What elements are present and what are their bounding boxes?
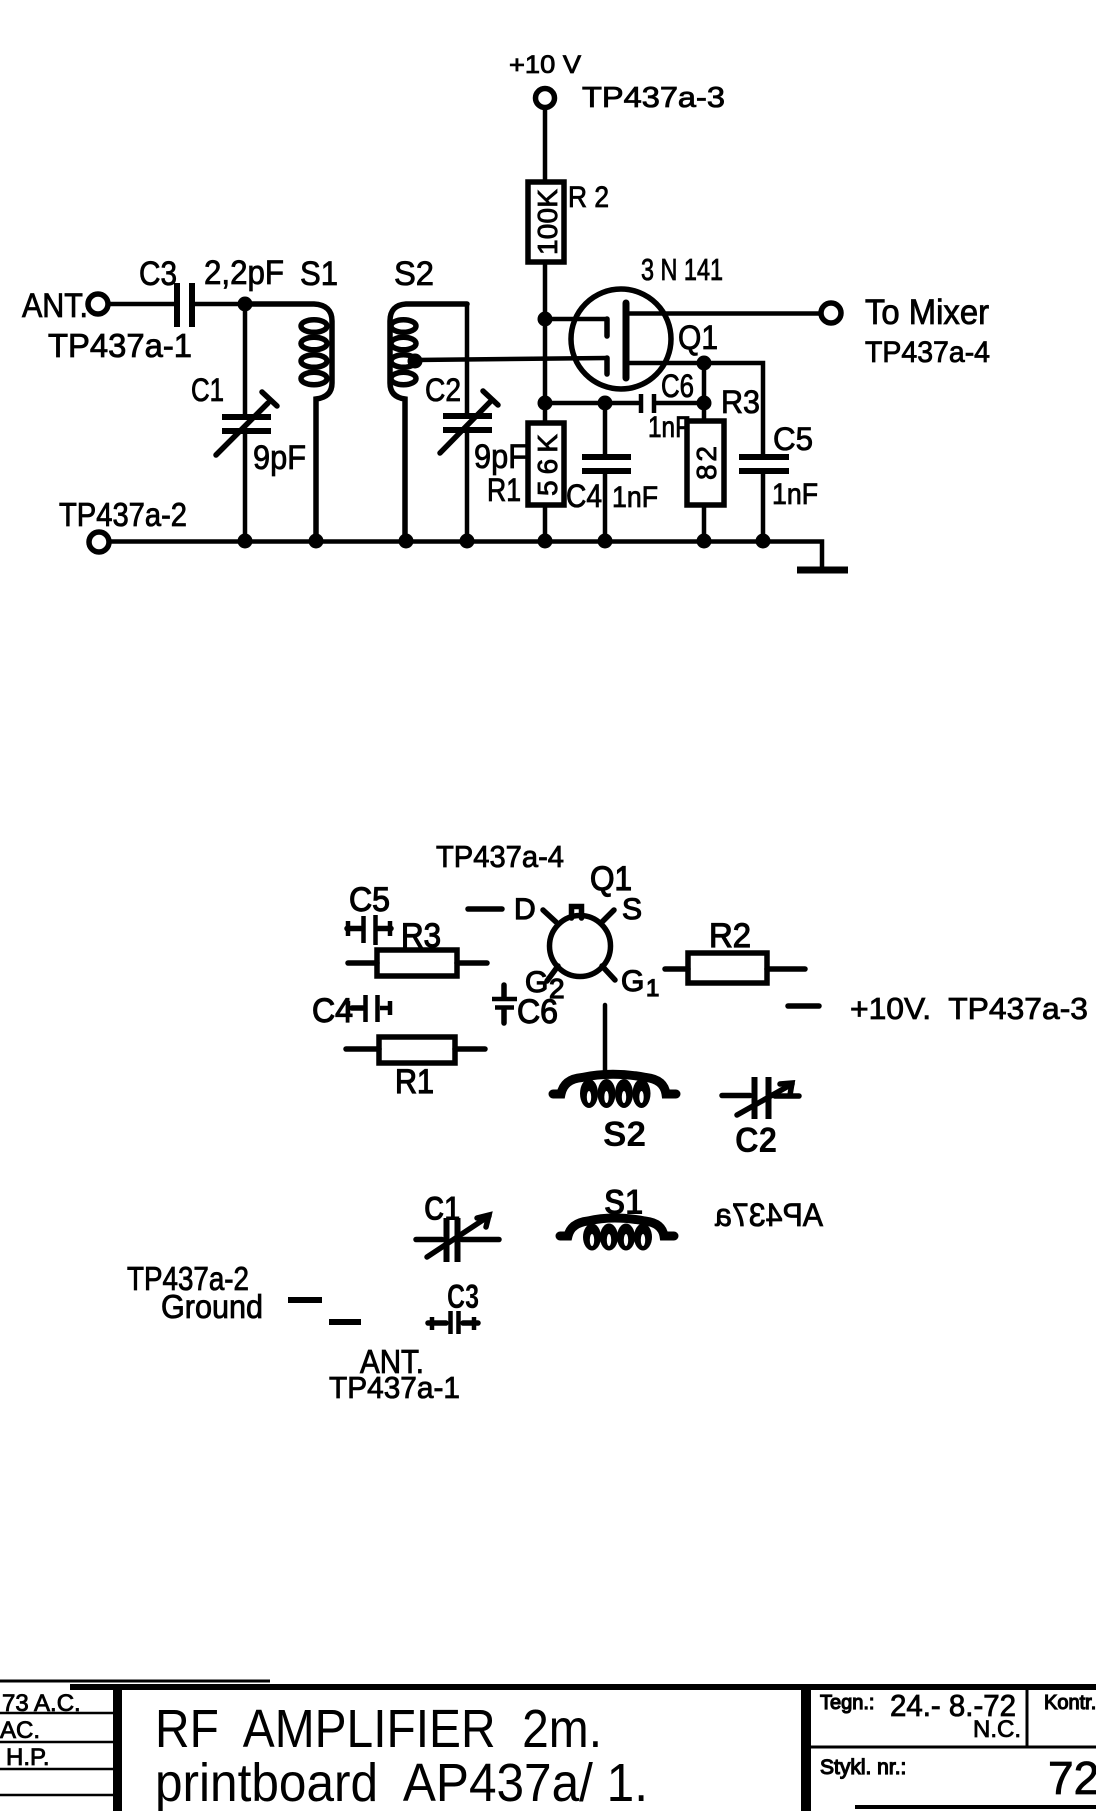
svg-text:AP437a: AP437a <box>715 1197 823 1233</box>
svg-text:73 A.C.: 73 A.C. <box>2 1690 81 1717</box>
svg-text:N.C.: N.C. <box>973 1716 1021 1743</box>
resistor R1 56K <box>487 403 564 541</box>
layout inductor S2 <box>553 1074 676 1154</box>
svg-text:3 N 141: 3 N 141 <box>641 252 723 287</box>
svg-text:56K: 56K <box>532 434 563 496</box>
svg-text:S: S <box>622 893 642 926</box>
title text printboard AP437a/1 <box>155 1753 648 1811</box>
svg-text:1nF: 1nF <box>772 478 818 511</box>
terminal ground TP437a-2 <box>59 496 187 552</box>
transistor Q1 3N141 <box>571 252 723 389</box>
svg-text:C6: C6 <box>661 368 694 404</box>
svg-text:ANT.: ANT. <box>22 287 88 325</box>
svg-text:Tegn.:: Tegn.: <box>820 1692 874 1714</box>
svg-text:C4: C4 <box>566 478 602 514</box>
svg-text:Stykl. nr.:: Stykl. nr.: <box>820 1756 906 1779</box>
svg-text:AC.: AC. <box>0 1717 40 1744</box>
wire +10V to R2 <box>543 108 548 182</box>
svg-text:Ground: Ground <box>161 1288 263 1325</box>
svg-text:printboard AP437a/ 1.: printboard AP437a/ 1. <box>155 1753 648 1811</box>
terminal To Mixer TP437a-4 <box>821 293 990 369</box>
node C4 junction <box>598 396 613 411</box>
capacitor C6 1nF <box>641 368 694 444</box>
node rail S1 <box>309 534 324 549</box>
svg-text:To Mixer: To Mixer <box>865 293 989 332</box>
svg-text:+10V. TP437a-3: +10V. TP437a-3 <box>850 991 1088 1026</box>
svg-text:1nF: 1nF <box>648 411 690 444</box>
svg-text:C5: C5 <box>349 881 390 919</box>
layout wire stub drain <box>468 906 502 912</box>
node rail C2 <box>460 534 475 549</box>
layout capacitor C6 <box>492 985 558 1031</box>
layout wire Q1 to S2 <box>603 1005 608 1070</box>
resistor R3 82 <box>687 384 760 541</box>
title block frame <box>0 1681 1096 1811</box>
node A junction <box>238 297 253 312</box>
variable capacitor C1 9pF <box>191 304 306 541</box>
svg-text:RF AMPLIFIER 2m.: RF AMPLIFIER 2m. <box>155 1699 602 1759</box>
svg-text:D: D <box>514 893 536 926</box>
node R3 junction <box>697 396 712 411</box>
wire gate2 node to R1 node <box>543 319 548 403</box>
node rail C1 <box>238 534 253 549</box>
layout trimmer C1 <box>416 1190 499 1262</box>
wire C6 row right <box>656 401 704 406</box>
capacitor C4 1nF <box>566 403 658 541</box>
wire R2 to gate2 node <box>543 262 548 319</box>
svg-text:TP437a-4: TP437a-4 <box>865 336 990 369</box>
svg-text:R2: R2 <box>709 917 751 955</box>
layout pin G1 <box>621 965 659 1002</box>
svg-text:R1: R1 <box>487 472 521 508</box>
layout wire stub +10V <box>788 1003 819 1009</box>
svg-text:R1: R1 <box>395 1063 434 1101</box>
svg-text:Q1: Q1 <box>678 319 718 357</box>
svg-text:S2: S2 <box>603 1115 646 1154</box>
layout wire stub antenna <box>329 1319 361 1325</box>
layout capacitor C4 <box>312 992 391 1030</box>
layout capacitor C3 <box>428 1278 479 1334</box>
svg-text:Kontr.: Kontr. <box>1044 1692 1096 1714</box>
layout resistor R1 <box>346 1037 485 1101</box>
wire C3 to node A <box>195 302 245 307</box>
node source junction <box>697 356 712 371</box>
capacitor C5 1nF <box>739 421 818 541</box>
svg-text:TP437a-3: TP437a-3 <box>582 82 725 114</box>
svg-text:R 2: R 2 <box>568 181 609 214</box>
title block approvals table <box>0 1690 114 1795</box>
title block Stykl nr <box>820 1752 1096 1804</box>
svg-text:9pF: 9pF <box>253 439 306 477</box>
svg-text:1nF: 1nF <box>612 481 658 514</box>
wire C6 row left <box>545 401 638 406</box>
layout transistor Q1 footprint <box>543 907 615 982</box>
wire source node down <box>702 363 707 403</box>
svg-text:1: 1 <box>646 975 659 1002</box>
svg-text:H.P.: H.P. <box>6 1744 50 1771</box>
inductor S2 <box>390 255 467 541</box>
layout resistor R3 <box>348 917 487 976</box>
node rail R3 <box>697 534 712 549</box>
svg-text:C3: C3 <box>447 1278 479 1316</box>
svg-text:S1: S1 <box>300 255 338 293</box>
wire gate2 node to G2 <box>545 317 605 322</box>
svg-text:9pF: 9pF <box>474 438 527 476</box>
title text RF AMPLIFIER 2m. <box>155 1699 602 1759</box>
svg-text:TP437a-4: TP437a-4 <box>436 839 564 874</box>
wire drain to mixer <box>626 311 821 316</box>
svg-text:TP437a-1: TP437a-1 <box>48 327 192 364</box>
svg-text:C2: C2 <box>735 1121 777 1160</box>
svg-text:C6: C6 <box>517 993 558 1031</box>
variable capacitor C2 9pF <box>425 304 527 541</box>
svg-text:TP437a-2: TP437a-2 <box>59 496 187 533</box>
svg-text:2,2pF: 2,2pF <box>204 254 284 292</box>
wire source <box>626 361 704 366</box>
layout pin G2 <box>525 966 565 1004</box>
wire S2 tap to gate1 <box>415 358 607 360</box>
layout inductor S1 <box>560 1183 674 1251</box>
wire ANT to C3 <box>108 302 175 307</box>
layout resistor R2 <box>665 917 805 983</box>
title block Tegn date <box>820 1688 1021 1743</box>
svg-text:S2: S2 <box>394 255 434 293</box>
node rail S2 <box>399 534 414 549</box>
svg-text:C3: C3 <box>139 255 177 293</box>
node rail R1 <box>538 534 553 549</box>
svg-text:100K: 100K <box>532 189 563 255</box>
svg-text:G: G <box>621 965 644 998</box>
svg-text:C5: C5 <box>773 421 813 457</box>
svg-text:TP437a-1: TP437a-1 <box>329 1370 460 1405</box>
inductor S1 <box>245 255 338 541</box>
terminal +10V TP437a-3 <box>509 51 725 114</box>
wire source to C5 <box>704 363 763 455</box>
layout trimmer C2 <box>722 1077 799 1160</box>
layout label TP437a-2 Ground <box>127 1260 263 1325</box>
svg-text:72: 72 <box>1048 1752 1096 1804</box>
layout label ANT. TP437a-1 <box>329 1343 460 1405</box>
node rail C5 <box>756 534 771 549</box>
svg-text:C2: C2 <box>425 372 461 408</box>
capacitor C3 2,2pF <box>139 254 284 327</box>
resistor R2 100K <box>528 181 609 262</box>
node gate2 junction <box>538 312 553 327</box>
wire node A to S1 <box>245 302 316 307</box>
svg-text:R3: R3 <box>721 384 760 420</box>
terminal ANT TP437a-1 <box>22 287 192 364</box>
layout capacitor C5 <box>347 881 391 945</box>
ground rail <box>109 542 822 569</box>
svg-text:+10 V: +10 V <box>509 51 581 79</box>
node R1 C6 junction <box>538 396 553 411</box>
node rail C4 <box>598 534 613 549</box>
ground symbol <box>797 567 848 574</box>
svg-text:C1: C1 <box>191 372 224 408</box>
layout wire stub ground <box>288 1297 322 1303</box>
node S2 tap <box>408 354 423 369</box>
